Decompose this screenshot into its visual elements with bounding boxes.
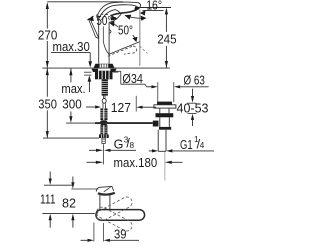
faucet spout channel [116, 10, 122, 15]
wire dashed swivel pill lower [95, 205, 134, 233]
wire 16deg leader arrow [140, 10, 146, 15]
wire G38 extension line [103, 144, 105, 164]
faucet body walls [99, 16, 111, 64]
svg-text:127: 127 [111, 101, 131, 115]
svg-text:Ø34: Ø34 [122, 72, 142, 86]
faucet lever curve second [99, 5, 136, 19]
dimension max300 [69, 69, 72, 123]
wire 16deg arc with arrows [125, 15, 147, 21]
svg-text:111: 111 [40, 192, 56, 206]
wire 82 reference tick [71, 188, 98, 190]
gasket wedge below deck [92, 69, 99, 72]
lever slab front view [96, 186, 115, 194]
faucet lever hook thick [111, 8, 140, 16]
faucet hose segment B [100, 125, 107, 134]
drain locknut [156, 113, 174, 117]
faucet body front view [100, 194, 110, 210]
wire washer lines left [84, 71, 92, 73]
svg-text:50°: 50° [96, 14, 111, 28]
svg-text:max.180: max.180 [114, 156, 158, 170]
drain waste top dark block [157, 102, 172, 105]
dimension O63 arrows [147, 82, 209, 102]
dimension 111 lower arrow [49, 214, 52, 228]
faucet hose joint [99, 120, 108, 125]
wire 350 bottom tick [43, 137, 99, 139]
drain rod clamp [153, 121, 159, 127]
dimension G1 1/4 arrows across tailpipe [149, 149, 214, 152]
faucet spout top curve [102, 10, 116, 20]
faucet connector oval [102, 99, 106, 104]
faucet lever curve outer [97, 2, 141, 17]
dimension 50deg right arc arrows [110, 21, 138, 42]
dimension 50deg left arc dashed [88, 14, 117, 20]
pop-up knob ray solid [109, 42, 140, 55]
wire 50deg left arrows [87, 16, 94, 21]
dimension 39 [81, 223, 140, 242]
svg-text:40-53: 40-53 [177, 101, 209, 115]
svg-text:82: 82 [62, 197, 76, 211]
faucet hose segment A [100, 108, 107, 120]
wire 245 top tick [139, 7, 171, 9]
wire tailpipe extension line [164, 152, 166, 181]
svg-text:Ø 63: Ø 63 [184, 74, 205, 88]
dimension 82 upper arrow [71, 177, 74, 189]
wire dashed lowered lever [108, 46, 148, 56]
svg-text:4: 4 [200, 141, 205, 150]
faucet neck2 [102, 103, 104, 108]
svg-text:350: 350 [38, 98, 57, 112]
svg-text:G: G [114, 138, 124, 152]
wire deck line [42, 67, 170, 69]
spout pill solid [96, 210, 145, 221]
svg-text:max.30: max.30 [53, 40, 90, 54]
drain fitting band [159, 127, 171, 130]
faucet shank neck [103, 96, 105, 99]
wire dashed swivel pill upper [95, 195, 134, 233]
svg-text:max.: max. [61, 82, 85, 96]
faucet spout nose [109, 14, 121, 22]
wire 111 reference tick [44, 184, 73, 186]
wire bottom baseline [42, 212, 94, 214]
dimension 350 [46, 68, 49, 138]
faucet hose thread tip [102, 138, 105, 143]
dimension 245 [165, 8, 168, 68]
dimension G38 arrows [89, 149, 136, 152]
dimension 111 upper arrow [49, 172, 52, 185]
faucet mounting nut hatched [95, 71, 113, 80]
dimension 82 lower arrow [71, 214, 74, 228]
raised lever wedge solid [89, 21, 99, 39]
faucet threaded shank [102, 79, 108, 95]
svg-text:8: 8 [130, 141, 135, 150]
svg-text:245: 245 [157, 32, 176, 46]
faucet lever dark tip [135, 6, 140, 11]
wire washer line right [113, 71, 118, 73]
svg-text:39: 39 [114, 227, 127, 241]
svg-text:G1: G1 [180, 138, 193, 152]
faucet hose end nut [99, 134, 109, 138]
drain neck [159, 108, 161, 113]
wire lever tip extension line [139, 10, 141, 66]
drain pipe mid [159, 117, 161, 127]
drain flange rim [154, 105, 176, 108]
dimension max180 [87, 161, 183, 164]
faucet base flange [94, 64, 115, 68]
dimension max30 bottom arrow [88, 75, 92, 92]
dimension 127 [86, 96, 156, 112]
wire pop-up rod [66, 122, 95, 124]
svg-text:50°: 50° [118, 24, 133, 38]
dimension 270 [46, 2, 49, 68]
dimension 40-53 [187, 89, 197, 126]
svg-text:300: 300 [62, 97, 82, 111]
drain tailpipe [158, 130, 166, 152]
wire top reference tick for 270 [47, 1, 123, 3]
